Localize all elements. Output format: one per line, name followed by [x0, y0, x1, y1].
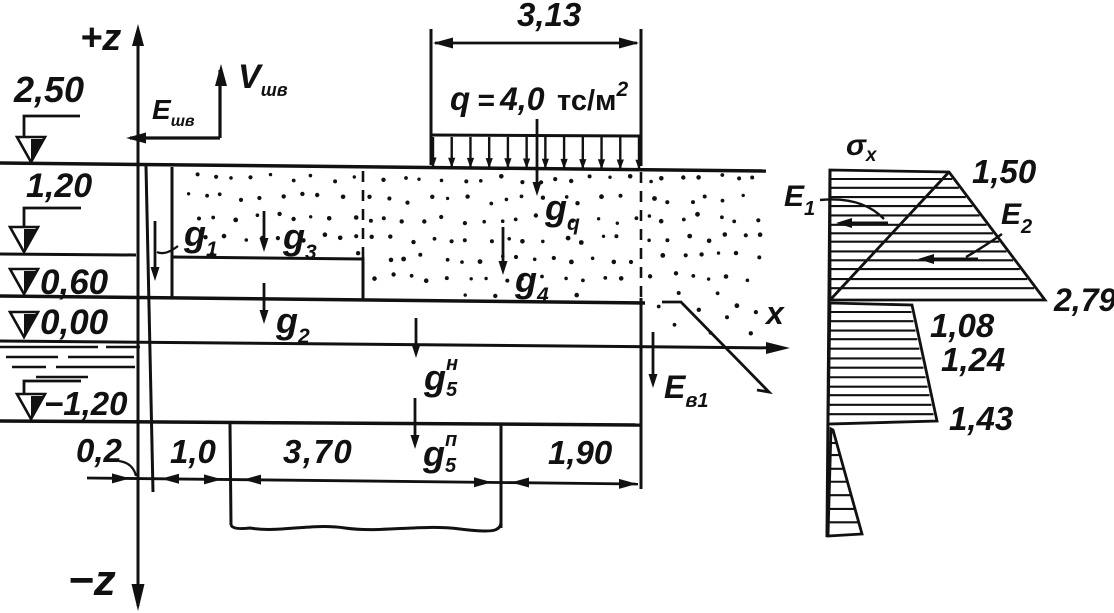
svg-text:3,13: 3,13: [517, 0, 581, 33]
dimension 3,13: [435, 42, 637, 45]
svg-text:1,24: 1,24: [941, 341, 1005, 378]
load left extension line: [430, 29, 433, 165]
dashed boundary x=363: [362, 171, 365, 257]
ground line elev 2.50: [0, 163, 766, 171]
distributed load arrows: [432, 137, 434, 167]
force g3: [263, 211, 266, 243]
structure top line elev 0.60: [0, 296, 645, 303]
svg-text:−z: −z: [68, 556, 116, 605]
svg-text:3,70: 3,70: [283, 433, 353, 470]
force gq: [536, 119, 539, 187]
svg-text:1,0: 1,0: [170, 433, 217, 470]
bottom pressure wedge: [828, 429, 862, 536]
svg-text:1,43: 1,43: [949, 400, 1013, 437]
load right extension line: [640, 29, 643, 166]
load base bar: [431, 135, 641, 136]
force g1: [154, 221, 157, 272]
force g4: [502, 227, 505, 266]
svg-text:0,60: 0,60: [40, 263, 109, 302]
hatch upper trapezoid: [830, 178, 952, 180]
svg-text:н: н: [446, 353, 458, 375]
structure right face: [640, 298, 643, 489]
svg-text:+z: +z: [80, 17, 121, 59]
svg-text:1,08: 1,08: [930, 307, 995, 344]
backfill stipple dots: [196, 172, 200, 176]
svg-text:0,00: 0,00: [40, 303, 109, 342]
force V_shv (vertical): [218, 70, 221, 138]
hatch bottom wedge: [829, 442, 837, 444]
force g5^n: [415, 318, 418, 349]
force E_shv (horizontal): [130, 136, 220, 139]
elevation marker 1.20: [10, 227, 38, 252]
force E_v1: [652, 332, 655, 379]
svg-text:2,50: 2,50: [13, 69, 84, 110]
water level hatching: [0, 346, 98, 349]
elevation marker 2.50: [17, 137, 45, 162]
hatch lower trapezoid: [829, 311, 912, 313]
superstructure ledge line elev 1.20: [172, 257, 363, 259]
wall outer face: [146, 166, 153, 492]
svg-text:5: 5: [446, 379, 458, 401]
elevation line 1.20: [0, 254, 136, 255]
elevation marker 0.60: [10, 269, 38, 294]
wall inner face: [171, 167, 174, 299]
svg-text:−1,20: −1,20: [44, 385, 128, 422]
svg-text:g: g: [422, 433, 445, 474]
structure bottom line elev -1.20: [0, 421, 642, 425]
upper pressure trapezoid: [830, 170, 1045, 300]
inner diagonal (active pressure line): [831, 172, 949, 299]
svg-text:п: п: [445, 429, 457, 451]
foundation tooth bottom (break line): [231, 522, 501, 531]
foundation tooth right edge: [500, 424, 503, 528]
svg-text:0,2: 0,2: [76, 432, 123, 469]
svg-text:5: 5: [445, 455, 457, 477]
foundation tooth left edge: [230, 424, 231, 525]
z-axis: [137, 30, 140, 606]
x-axis: [0, 341, 783, 348]
svg-text:1,50: 1,50: [972, 153, 1037, 190]
bottom dimension line: [87, 478, 638, 484]
svg-text:1,90: 1,90: [548, 434, 613, 471]
dashed boundary right edge: [640, 172, 643, 298]
sigma_x diagram axis: [827, 169, 830, 537]
elevation marker 0.00: [10, 312, 38, 337]
svg-text:g: g: [423, 357, 446, 398]
lower pressure trapezoid: [828, 303, 937, 424]
leader line to backfill: [662, 302, 769, 392]
force g2: [263, 283, 266, 315]
svg-text:1,20: 1,20: [26, 167, 92, 205]
svg-text:2,79: 2,79: [1053, 282, 1114, 318]
svg-text:x: x: [764, 295, 785, 331]
force g5^p: [414, 398, 417, 440]
elevation marker -1.20: [17, 394, 45, 419]
